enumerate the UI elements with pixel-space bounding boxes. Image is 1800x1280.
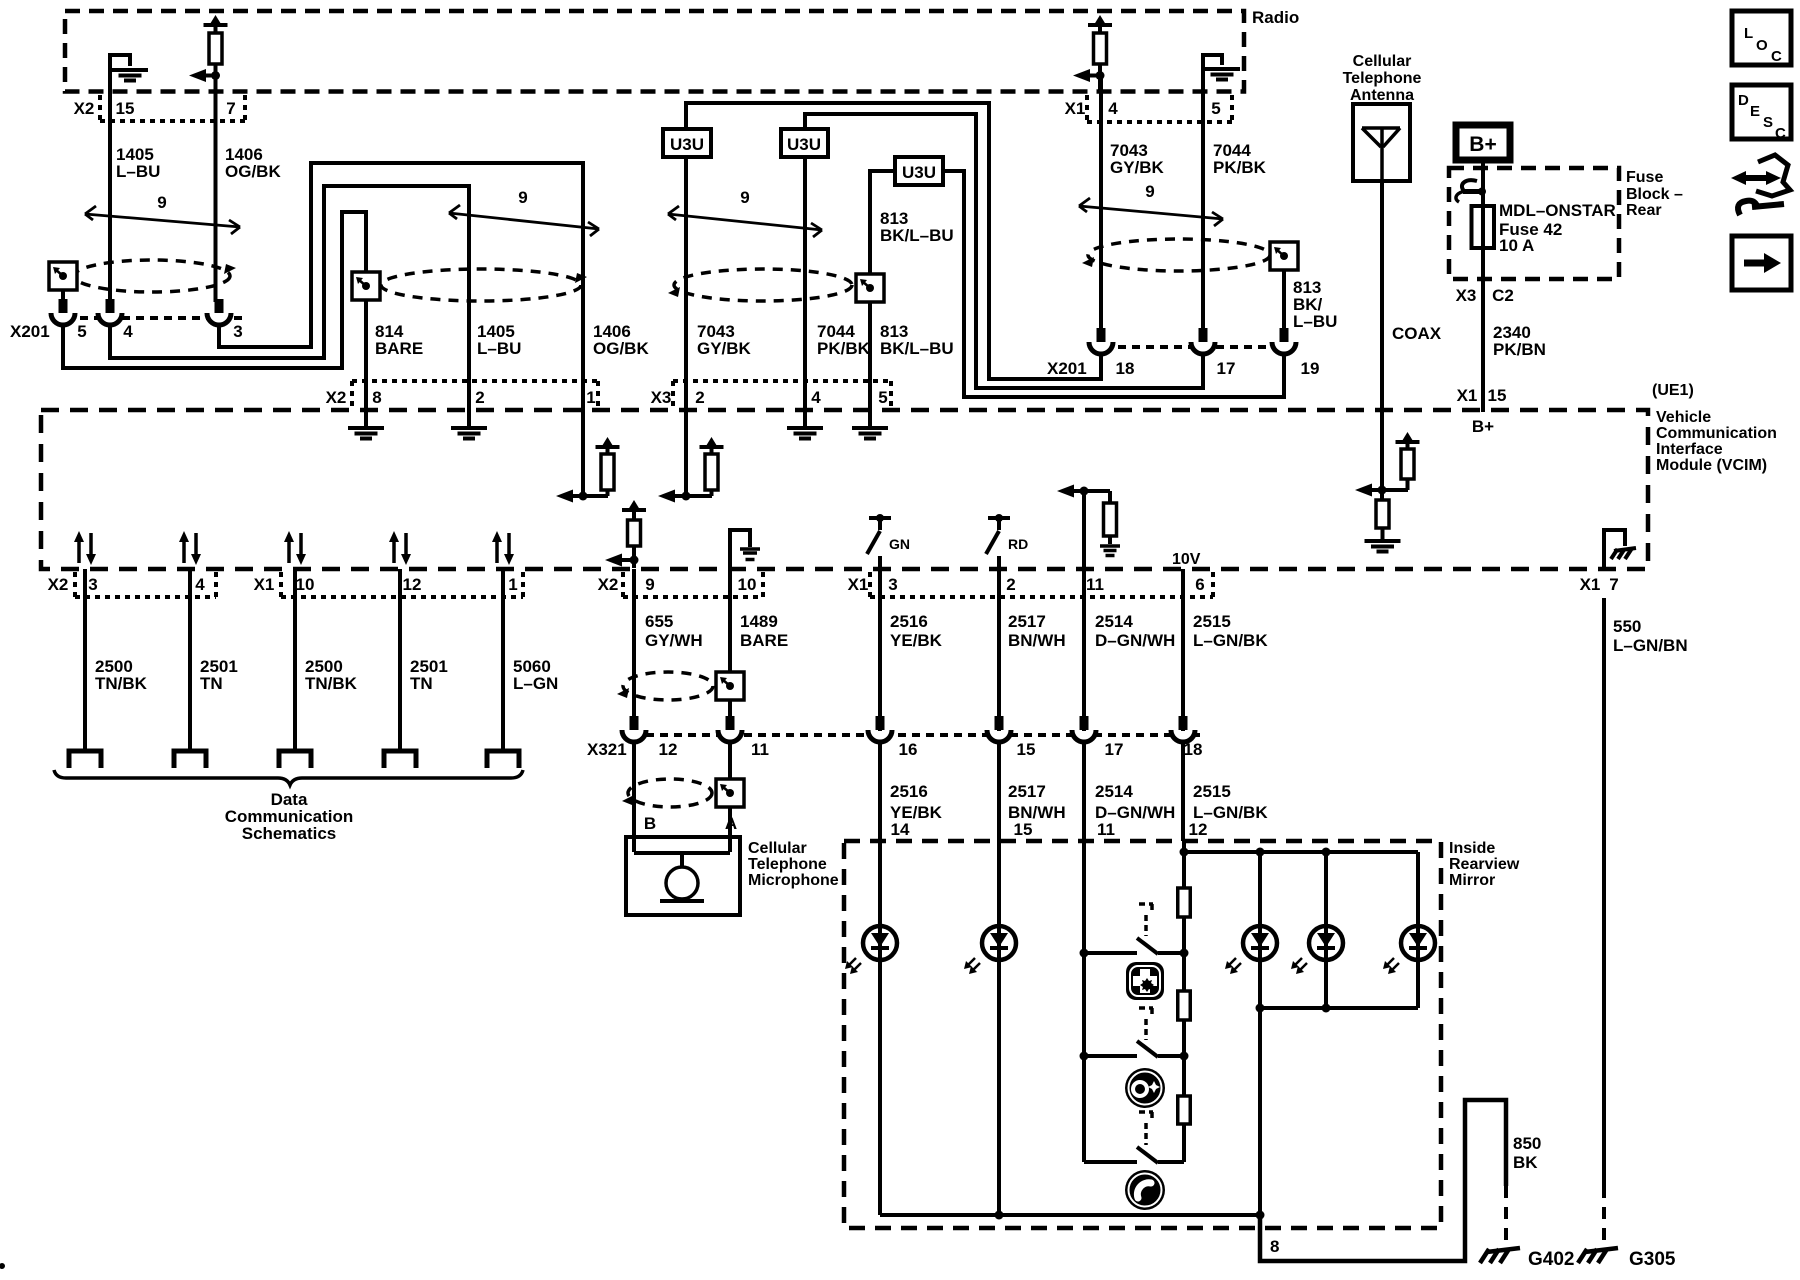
label X1 (VCIM right) xyxy=(1580,575,1601,594)
photodiode LED 1 xyxy=(845,926,897,974)
svg-text:15: 15 xyxy=(1014,820,1033,839)
resistor inside Radio (7043) xyxy=(1088,15,1112,91)
pushbutton actuator 1 dashed xyxy=(1139,904,1153,936)
svg-text:5: 5 xyxy=(878,388,887,407)
svg-text:2516: 2516 xyxy=(890,782,928,801)
pin X201-19 terminal xyxy=(1272,328,1296,354)
svg-text:BK/L–BU: BK/L–BU xyxy=(880,226,954,245)
ground G402 xyxy=(1480,1248,1520,1263)
component box Cellular Telephone Microphone xyxy=(626,837,740,915)
wire 850 dashed to ground xyxy=(1504,1186,1508,1242)
connector X2/X3 strip (VCIM top) xyxy=(352,381,891,410)
microphone symbol xyxy=(634,853,730,901)
svg-text:2: 2 xyxy=(475,388,484,407)
option box U3U (813) xyxy=(895,157,943,185)
svg-text:BARE: BARE xyxy=(740,631,788,650)
arrow left inside Radio (1406) xyxy=(189,69,220,82)
terminal 5 xyxy=(487,751,519,768)
svg-text:Antenna: Antenna xyxy=(1350,87,1414,104)
pin 12 (mirror) xyxy=(1189,820,1208,839)
serial data arrows 4 xyxy=(389,531,411,565)
connector X1 strip (VCIM bottom) xyxy=(870,572,1213,597)
svg-text:3: 3 xyxy=(88,575,97,594)
wire 7043 through U3U xyxy=(684,157,688,412)
option box U3U (7043) xyxy=(663,129,711,157)
label X3 (VCIM top) xyxy=(651,388,672,407)
serial data arrows 1 xyxy=(74,531,96,565)
pin X201-5 terminal xyxy=(51,299,75,325)
pin 3 (VCIM X1) xyxy=(888,575,897,594)
svg-text:G305: G305 xyxy=(1629,1249,1676,1270)
svg-text:Module (VCIM): Module (VCIM) xyxy=(1656,457,1767,474)
label 2517 BN/WH (upper) xyxy=(1008,612,1066,650)
svg-text:2516: 2516 xyxy=(890,612,928,631)
svg-text:1489: 1489 xyxy=(740,612,778,631)
pin 4 (data X2) xyxy=(195,575,205,594)
svg-text:2514: 2514 xyxy=(1095,612,1133,631)
svg-text:L–BU: L–BU xyxy=(116,162,160,181)
pin number 16 (X321) xyxy=(899,740,918,759)
wire 2517 lower xyxy=(997,742,1001,841)
serial data arrows 5 xyxy=(492,531,514,565)
pin number 18 xyxy=(1116,359,1135,378)
ground G305 xyxy=(1578,1248,1618,1263)
label 5060 L–GN xyxy=(513,657,558,693)
svg-text:3: 3 xyxy=(233,322,242,341)
label 813 BK/L-BU (upper) xyxy=(880,209,954,245)
label A xyxy=(725,814,737,833)
svg-text:10: 10 xyxy=(296,575,315,594)
photodiode LED 3 xyxy=(1225,926,1277,974)
button icon phone xyxy=(1125,1170,1165,1210)
pin X321 terminal x=999 xyxy=(987,716,1011,742)
pin 7 (VCIM X1) xyxy=(1609,575,1618,594)
svg-text:2517: 2517 xyxy=(1008,612,1046,631)
label X2 (Radio) xyxy=(74,99,95,118)
svg-text:12: 12 xyxy=(1189,820,1208,839)
label Cellular Telephone Microphone xyxy=(748,840,839,889)
wire 850 BK from mirror pin 8 xyxy=(1260,1100,1506,1261)
svg-text:X2: X2 xyxy=(598,575,619,594)
label 550 L-GN/BN xyxy=(1613,617,1688,655)
pin 10 (VCIM X2) xyxy=(738,575,757,594)
svg-text:8: 8 xyxy=(1270,1237,1279,1256)
pin 11 (VCIM X1) xyxy=(1086,575,1104,594)
twisted pair ellipse (1405/1406 left) xyxy=(74,260,236,292)
pin 4 (Radio X1) xyxy=(1108,99,1118,118)
svg-text:X321: X321 xyxy=(587,740,627,759)
svg-text:9: 9 xyxy=(740,188,749,207)
pin X201-3 terminal xyxy=(207,299,231,325)
label 850 BK xyxy=(1513,1134,1541,1172)
label Data Communication Schematics xyxy=(225,790,353,843)
label 2515 L–GN/BK (upper) xyxy=(1193,612,1268,650)
svg-text:3: 3 xyxy=(888,575,897,594)
shield connector on 814 xyxy=(352,272,380,300)
wire 2501 TN xyxy=(398,569,402,751)
internal circuit 1406 xyxy=(556,412,620,503)
component box Cellular Telephone Antenna xyxy=(1353,104,1410,181)
svg-text:2514: 2514 xyxy=(1095,782,1133,801)
ground inside Radio (right) xyxy=(1203,55,1240,91)
label X1 (data) xyxy=(254,575,275,594)
svg-text:1: 1 xyxy=(586,388,595,407)
svg-text:BK: BK xyxy=(1513,1153,1538,1172)
label X201 (left) xyxy=(10,322,50,341)
svg-text:TN: TN xyxy=(200,674,223,693)
label 2501 TN xyxy=(200,657,238,693)
pushbutton actuator 2 dashed xyxy=(1139,1008,1153,1040)
connector X1 strip (data) xyxy=(281,572,523,597)
svg-text:2515: 2515 xyxy=(1193,612,1231,631)
label 2517 BN/WH (lower) xyxy=(1008,782,1066,822)
svg-text:RD: RD xyxy=(1008,536,1028,552)
label Vehicle Communication Interface Module (VCIM) xyxy=(1656,409,1777,474)
component box Inside Rearview Mirror xyxy=(844,841,1441,1228)
pin number 18 (X321) xyxy=(1184,740,1203,759)
svg-text:X2: X2 xyxy=(48,575,69,594)
wire count 9 marker (right) xyxy=(1079,182,1223,226)
wire X201-3 to 1406 riser xyxy=(219,163,583,412)
svg-text:11: 11 xyxy=(1086,575,1104,594)
wire count 9 marker (U3U) xyxy=(668,188,822,237)
wire 2515 right rail xyxy=(1180,841,1189,1162)
svg-text:X3: X3 xyxy=(651,388,672,407)
svg-text:18: 18 xyxy=(1184,740,1203,759)
pin 6 (VCIM X1) xyxy=(1195,575,1204,594)
svg-text:11: 11 xyxy=(1097,820,1115,839)
LED bank bottom rail xyxy=(1260,960,1418,1013)
svg-text:D–GN/WH: D–GN/WH xyxy=(1095,631,1175,650)
component box Radio xyxy=(65,11,1244,92)
svg-text:18: 18 xyxy=(1116,359,1135,378)
svg-text:10 A: 10 A xyxy=(1499,236,1534,255)
svg-text:X1: X1 xyxy=(1457,386,1478,405)
wire 7044 upper run xyxy=(805,114,1203,388)
label MDL-ONSTAR Fuse 42 10 A xyxy=(1499,201,1616,255)
connector X321 strip xyxy=(646,733,1200,737)
svg-text:Fuse: Fuse xyxy=(1626,169,1663,186)
label Radio xyxy=(1252,8,1299,27)
ground at X3-5 xyxy=(852,412,888,439)
shield connector on 1489 (upper) xyxy=(716,672,744,700)
svg-text:D: D xyxy=(1738,92,1749,109)
label X2 (VCIM top) xyxy=(326,388,347,407)
wire 2517 upper xyxy=(997,569,1001,731)
pin 1 (VCIM X2) xyxy=(586,388,595,407)
pin 14 (mirror) xyxy=(891,820,910,839)
label 10V xyxy=(1172,551,1201,568)
svg-text:7: 7 xyxy=(226,99,235,118)
pin 10 (data X1) xyxy=(296,575,315,594)
svg-text:X1: X1 xyxy=(1065,99,1086,118)
svg-text:9: 9 xyxy=(518,188,527,207)
pin 2 (VCIM X3) xyxy=(695,388,704,407)
wire X201-4 to 1405 riser xyxy=(110,186,469,412)
wire 2500 TN/BK xyxy=(83,569,87,751)
shield connector on 813 xyxy=(856,274,884,302)
wire 814 to X2-8 xyxy=(364,300,368,412)
svg-text:Microphone: Microphone xyxy=(748,872,839,889)
svg-text:14: 14 xyxy=(891,820,910,839)
label 1405 L-BU (mid) xyxy=(477,322,521,358)
antenna symbol xyxy=(1362,128,1400,181)
switch GN xyxy=(867,514,910,569)
pushbutton switch 2 xyxy=(1084,1041,1184,1057)
label 2515 L–GN/BK (lower) xyxy=(1193,782,1268,822)
svg-text:B+: B+ xyxy=(1472,417,1494,436)
pin number 15 (X321) xyxy=(1017,740,1036,759)
pin X321 terminal x=880 xyxy=(868,716,892,742)
icon DESC xyxy=(1732,85,1791,142)
svg-text:O: O xyxy=(1756,37,1768,54)
ground inside Radio (left) xyxy=(110,55,148,97)
shield connector on X201-5 xyxy=(49,262,77,290)
svg-text:Radio: Radio xyxy=(1252,8,1299,27)
svg-text:BK/L–BU: BK/L–BU xyxy=(880,339,954,358)
wire 2517 in mirror xyxy=(995,841,1004,1220)
pin 9 (VCIM X2) xyxy=(645,575,654,594)
internal ground 1489 xyxy=(730,530,760,568)
svg-text:S: S xyxy=(1763,114,1773,131)
svg-text:Telephone: Telephone xyxy=(748,856,827,873)
pin 15 (Radio X2) xyxy=(116,99,135,118)
svg-text:(UE1): (UE1) xyxy=(1652,382,1694,399)
twisted pair ellipse (7043/7044) xyxy=(668,269,852,301)
svg-text:Cellular: Cellular xyxy=(748,840,807,857)
label Inside Rearview Mirror xyxy=(1449,840,1520,889)
connector X2 strip (Radio) xyxy=(100,95,245,121)
twisted pair ellipse (655 lower) xyxy=(622,779,712,807)
power symbol B+ xyxy=(1456,125,1510,160)
svg-text:5: 5 xyxy=(77,322,86,341)
label 2516 YE/BK (lower) xyxy=(890,782,943,822)
svg-text:Vehicle: Vehicle xyxy=(1656,409,1711,426)
wire 1489 BARE xyxy=(728,569,732,674)
label 7044 PK/BK (mid) xyxy=(817,322,871,358)
internal circuit 7043 xyxy=(658,412,724,503)
svg-text:B: B xyxy=(644,814,656,833)
svg-text:2515: 2515 xyxy=(1193,782,1231,801)
svg-text:550: 550 xyxy=(1613,617,1641,636)
svg-text:9: 9 xyxy=(157,193,166,212)
svg-text:Communication: Communication xyxy=(1656,425,1777,442)
svg-text:Rearview: Rearview xyxy=(1449,856,1520,873)
resistor R3 (mirror) xyxy=(1178,1096,1191,1124)
svg-text:X201: X201 xyxy=(10,322,50,341)
svg-text:GN: GN xyxy=(889,536,910,552)
pin X321 terminal x=1183 xyxy=(1171,716,1195,742)
pin 5 (VCIM X3) xyxy=(878,388,887,407)
svg-text:Mirror: Mirror xyxy=(1449,872,1495,889)
brace Data Communication Schematics xyxy=(54,770,523,785)
wire 550 dashed to ground xyxy=(1602,1186,1606,1242)
wire count 9 marker (left) xyxy=(85,193,240,234)
label 2340 PK/BN xyxy=(1493,323,1546,359)
svg-text:C: C xyxy=(1771,48,1782,65)
wire 1489 to microphone A xyxy=(728,742,732,852)
wire count 9 marker (mid) xyxy=(449,188,599,236)
pin number 17 (X321) xyxy=(1105,740,1124,759)
terminal 4 xyxy=(384,751,416,768)
svg-text:U3U: U3U xyxy=(670,135,704,154)
pin 11 (mirror) xyxy=(1097,820,1115,839)
svg-text:Cellular: Cellular xyxy=(1353,53,1412,70)
label 1405 L-BU (upper) xyxy=(116,145,160,181)
icon forward arrow xyxy=(1732,236,1791,290)
svg-text:GY/BK: GY/BK xyxy=(1110,158,1165,177)
photodiode LED 2 xyxy=(964,926,1016,974)
label 655 GY/WH xyxy=(645,612,703,650)
label 2514 D–GN/WH (lower) xyxy=(1095,782,1175,822)
svg-text:GY/WH: GY/WH xyxy=(645,631,703,650)
internal ground X1-7 xyxy=(1604,530,1636,569)
wire 2514 left rail xyxy=(1080,841,1089,1162)
label 814 BARE xyxy=(375,322,423,358)
svg-text:Schematics: Schematics xyxy=(242,824,337,843)
svg-text:PK/BK: PK/BK xyxy=(1213,158,1267,177)
svg-text:C2: C2 xyxy=(1492,286,1514,305)
wire 813 left run xyxy=(870,171,895,276)
internal circuit COAX xyxy=(1355,412,1420,552)
svg-text:11: 11 xyxy=(751,740,769,759)
pin X201-18 terminal xyxy=(1089,328,1113,354)
pushbutton actuator 3 dashed xyxy=(1139,1112,1153,1145)
wire 1406 from Radio X2-7 xyxy=(214,76,218,303)
pin number 4 xyxy=(123,322,133,341)
connector X1 strip (Radio) xyxy=(1087,95,1232,122)
label 2516 YE/BK (upper) xyxy=(890,612,943,650)
wire 2514 lower xyxy=(1082,742,1086,841)
label COAX xyxy=(1392,324,1442,343)
svg-text:2: 2 xyxy=(695,388,704,407)
label 2500 TN/BK xyxy=(95,657,148,693)
label B xyxy=(644,814,656,833)
label 2500 TN/BK xyxy=(305,657,358,693)
svg-text:9: 9 xyxy=(645,575,654,594)
module box Vehicle Communication Interface Module VCIM xyxy=(41,410,1648,569)
terminal 1 xyxy=(69,751,101,768)
wire 550 L-GN/BN xyxy=(1602,598,1606,1186)
svg-text:Telephone: Telephone xyxy=(1343,70,1422,87)
ground at X3-4 xyxy=(787,412,823,439)
connector X201 (left) strip xyxy=(52,316,242,320)
svg-text:L–GN/BK: L–GN/BK xyxy=(1193,631,1268,650)
wire 1405 from Radio X2-15 xyxy=(108,55,112,302)
pin 8 (mirror) xyxy=(1270,1237,1279,1256)
svg-text:BN/WH: BN/WH xyxy=(1008,631,1066,650)
serial data arrows 3 xyxy=(284,531,306,565)
svg-text:Inside: Inside xyxy=(1449,840,1495,857)
svg-text:TN/BK: TN/BK xyxy=(305,674,358,693)
label (UE1) xyxy=(1652,382,1694,399)
photodiode LED 5 xyxy=(1383,926,1435,974)
svg-text:B+: B+ xyxy=(1469,133,1496,156)
pin 4 (VCIM X3) xyxy=(811,388,821,407)
pin number 19 xyxy=(1301,359,1320,378)
button icon emergency xyxy=(1126,962,1164,1000)
pin X321 terminal x=634 xyxy=(622,716,646,742)
svg-text:4: 4 xyxy=(123,322,133,341)
svg-text:L–GN/BN: L–GN/BN xyxy=(1613,636,1688,655)
svg-text:15: 15 xyxy=(1488,386,1507,405)
internal circuit 2514 xyxy=(1057,485,1120,570)
svg-text:4: 4 xyxy=(195,575,205,594)
pin 2 (VCIM X1) xyxy=(1006,575,1015,594)
svg-text:17: 17 xyxy=(1217,359,1236,378)
wire 2514 upper xyxy=(1082,569,1086,731)
wire shield drain to X201-5 xyxy=(61,290,65,302)
label X2 (VCIM bottom) xyxy=(598,575,619,594)
twisted pair ellipse (814/1405/1406) xyxy=(381,269,587,301)
svg-text:U3U: U3U xyxy=(902,163,936,182)
svg-text:X201: X201 xyxy=(1047,359,1087,378)
pin X321 terminal x=730 xyxy=(718,716,742,742)
wire X201-5 shield 814 riser xyxy=(63,212,366,368)
wire 2340 PK/BN xyxy=(1481,279,1485,412)
wire 655 to microphone B xyxy=(632,742,636,852)
svg-text:12: 12 xyxy=(403,575,422,594)
svg-text:1: 1 xyxy=(508,575,517,594)
pin number 17 xyxy=(1217,359,1236,378)
label X1 (Radio) xyxy=(1065,99,1086,118)
wire 7044 from Radio X1-5 xyxy=(1201,55,1205,343)
pin number 5 xyxy=(77,322,86,341)
svg-text:Interface: Interface xyxy=(1656,441,1723,458)
pin number 11 (X321) xyxy=(751,740,769,759)
svg-text:PK/BN: PK/BN xyxy=(1493,340,1546,359)
component box Fuse Block - Rear xyxy=(1449,168,1619,279)
svg-text:TN: TN xyxy=(410,674,433,693)
svg-text:L–GN: L–GN xyxy=(513,674,558,693)
svg-text:C: C xyxy=(1775,125,1786,142)
svg-text:L–BU: L–BU xyxy=(477,339,521,358)
wire 2516 in mirror xyxy=(878,841,882,1215)
switch RD xyxy=(986,514,1028,569)
svg-text:X3: X3 xyxy=(1456,286,1477,305)
label X2 (data) xyxy=(48,575,69,594)
pin 1 (data X1) xyxy=(508,575,517,594)
label Fuse Block - Rear xyxy=(1626,169,1683,219)
label 7043 GY/BK (mid) xyxy=(697,322,752,358)
label 813 BK/ L-BU (right) xyxy=(1293,278,1337,331)
ground at X2-2 xyxy=(451,412,487,439)
label X1 15 (VCIM top) xyxy=(1457,386,1507,405)
svg-text:YE/BK: YE/BK xyxy=(890,631,943,650)
label B+ (inside VCIM) xyxy=(1472,417,1494,436)
pin 7 (Radio X2) xyxy=(226,99,235,118)
svg-text:X2: X2 xyxy=(326,388,347,407)
icon jump arrows xyxy=(1731,155,1790,215)
wire 1489 to X321-11 xyxy=(728,700,732,731)
wire COAX xyxy=(1380,181,1384,412)
label 1489 BARE xyxy=(740,612,788,650)
terminal 2 xyxy=(174,751,206,768)
option box U3U (7044) xyxy=(781,129,828,157)
twisted pair ellipse (655 upper) xyxy=(617,672,713,700)
svg-text:6: 6 xyxy=(1195,575,1204,594)
label Cellular Telephone Antenna xyxy=(1343,53,1422,104)
svg-text:PK/BK: PK/BK xyxy=(817,339,871,358)
shield connector on 1489 (lower) xyxy=(716,779,744,807)
wire 2501 TN xyxy=(188,569,192,751)
twisted pair ellipse (7043/7044 right) xyxy=(1082,239,1270,271)
button icon OnStar xyxy=(1125,1068,1165,1108)
svg-text:7: 7 xyxy=(1609,575,1618,594)
svg-text:4: 4 xyxy=(1108,99,1118,118)
svg-text:X1: X1 xyxy=(254,575,275,594)
wire 2515 lower xyxy=(1181,742,1185,841)
